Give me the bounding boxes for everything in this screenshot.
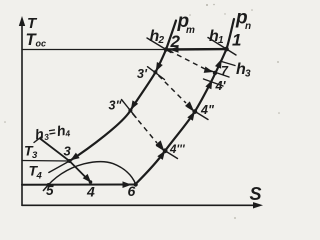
svg-text:4: 4: [86, 184, 95, 200]
svg-text:oc: oc: [36, 39, 47, 49]
svg-text:m: m: [186, 25, 195, 36]
svg-text:3": 3": [109, 99, 123, 113]
svg-text:3: 3: [32, 150, 38, 161]
svg-text:2: 2: [158, 35, 165, 46]
svg-text:4": 4": [200, 103, 215, 117]
svg-text:3: 3: [64, 143, 72, 158]
svg-text:7: 7: [221, 64, 229, 78]
svg-text:n: n: [245, 21, 251, 32]
svg-text:S: S: [250, 184, 262, 204]
svg-text:2: 2: [170, 32, 181, 51]
svg-text:3: 3: [245, 69, 251, 80]
svg-text:1: 1: [218, 35, 224, 46]
svg-text:4: 4: [36, 171, 43, 182]
svg-text:6: 6: [128, 183, 136, 199]
svg-text:4': 4': [215, 79, 227, 93]
svg-text:1: 1: [232, 30, 241, 49]
svg-text:3': 3': [137, 67, 148, 81]
svg-text:4''': 4''': [169, 144, 186, 156]
svg-text:5: 5: [46, 183, 54, 198]
